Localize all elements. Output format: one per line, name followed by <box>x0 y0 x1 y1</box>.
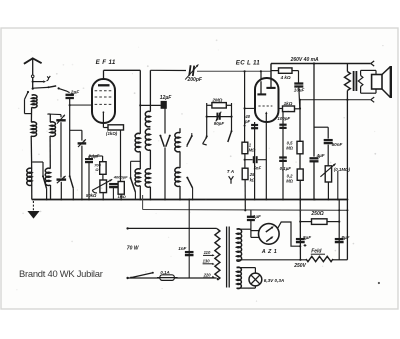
antenna coil L1 <box>32 95 37 108</box>
svg-text:8µF: 8µF <box>341 235 349 240</box>
trimmer blade S6 <box>191 135 193 137</box>
oscillator coil L5 <box>45 168 50 185</box>
pot wiper to bus <box>337 171 339 200</box>
AZ1 anode strokes <box>266 227 273 232</box>
svg-text:pF: pF <box>244 119 251 124</box>
wire L2 to bus <box>30 136 32 162</box>
capacitor 1nF mains <box>188 200 190 279</box>
svg-text:70 W: 70 W <box>127 246 140 252</box>
svg-text:(1kΩ): (1kΩ) <box>106 131 118 136</box>
resistor 25k <box>242 168 248 179</box>
svg-text:0,1µF: 0,1µF <box>280 166 292 171</box>
HT secondary winding <box>237 229 242 261</box>
svg-text:50nF: 50nF <box>332 142 343 147</box>
speaker cone <box>382 66 391 74</box>
tube EF11 envelope <box>92 79 115 123</box>
svg-text:200pF: 200pF <box>187 77 203 83</box>
svg-text:1nF: 1nF <box>178 246 186 251</box>
svg-text:1kΩ: 1kΩ <box>284 101 293 106</box>
svg-text:4000pF: 4000pF <box>113 175 128 180</box>
svg-text:6,3V 0,3A: 6,3V 0,3A <box>264 278 284 283</box>
trimmer capacitor lower <box>57 178 67 180</box>
wire to C 2uF <box>59 88 70 92</box>
anode rail to speaker <box>300 99 371 101</box>
transformer core <box>353 71 355 91</box>
wire branch to switch S2 <box>32 161 43 163</box>
trimmer capacitor column <box>47 113 49 115</box>
IF coil L7c <box>145 169 150 187</box>
wire resistor to bus <box>120 130 122 182</box>
oscillator coil L4 <box>50 122 55 136</box>
IF coil L8b <box>175 168 180 187</box>
wire 200pF line <box>150 69 186 71</box>
resistor 0,5M <box>297 141 303 154</box>
mains line bottom <box>126 277 128 279</box>
switch TA blade <box>231 130 233 132</box>
wire rectifier top connection <box>250 229 252 230</box>
capacitor 12uF electrolytic <box>140 104 161 106</box>
svg-text:1µF: 1µF <box>253 214 261 219</box>
ECL11 cathode arrow <box>265 113 267 122</box>
IF coil L7b <box>145 129 150 150</box>
switch S1b left blade <box>27 91 29 93</box>
output transformer primary <box>346 64 348 72</box>
rail end arrow <box>371 61 374 66</box>
svg-text:E F 11: E F 11 <box>96 59 116 66</box>
tube AZ1 <box>259 224 280 245</box>
coil L3 lower left <box>27 168 32 185</box>
potentiometer 50k <box>102 174 104 180</box>
svg-text:2MΩ: 2MΩ <box>211 98 222 103</box>
phono jack <box>229 176 234 184</box>
capacitor 200pF with arrow <box>189 65 190 75</box>
EF11 grid dashed lines <box>95 90 113 92</box>
wire <box>244 154 246 169</box>
svg-text:50kΩ: 50kΩ <box>86 193 97 198</box>
capacitor 50nF <box>327 127 329 138</box>
second bus <box>143 209 348 212</box>
switch blade S7 lower <box>186 177 188 179</box>
svg-text:A Z 1: A Z 1 <box>261 249 277 255</box>
resistor 1M <box>242 142 248 154</box>
scan noise specks <box>132 73 133 74</box>
svg-text:250V: 250V <box>293 263 306 269</box>
wire 4k to 10uF <box>292 70 299 72</box>
svg-text:EC L 11: EC L 11 <box>236 59 260 66</box>
ECL11 pentode anode <box>270 79 272 87</box>
trimmer 90pF <box>207 116 232 118</box>
antenna coil L2 <box>31 122 36 136</box>
capacitor 5nF coupling <box>245 159 253 161</box>
antenna switch arm <box>32 81 34 83</box>
IF coil L7a <box>145 111 150 127</box>
power transformer primary <box>215 229 220 280</box>
svg-text:MΩ: MΩ <box>286 179 293 184</box>
speaker voice coil <box>372 75 382 90</box>
capacitor 2uF <box>66 94 74 96</box>
pilot lamp wires <box>237 267 256 269</box>
capacitor 4uF <box>310 157 319 159</box>
wire antenna node <box>32 88 34 90</box>
trimmer capacitor T2 <box>70 129 82 131</box>
grid wire to ECL11 <box>197 70 271 72</box>
antenna <box>24 58 42 64</box>
ECL11 triode anode <box>260 81 262 93</box>
svg-text:90pF: 90pF <box>214 121 225 126</box>
potentiometer 0,1M <box>325 166 331 182</box>
wire grid divider column <box>244 71 246 142</box>
svg-text:Brandt 40 WK Jubilar: Brandt 40 WK Jubilar <box>19 268 103 279</box>
IF coil L6a <box>135 133 140 151</box>
svg-text:260V 40 mA: 260V 40 mA <box>290 57 319 63</box>
EF11 cathode resistor (1k) lead <box>102 123 104 128</box>
paper speck <box>378 282 380 284</box>
wire 2uF down to grid line <box>69 98 71 105</box>
wire to bus2 <box>244 180 246 211</box>
chassis bus <box>32 199 348 201</box>
grid wire to EF11 <box>70 104 92 106</box>
svg-text:12µF: 12µF <box>160 95 172 101</box>
EF11 anode bar <box>98 84 110 86</box>
AZ1 filament leads <box>251 230 259 232</box>
switch S5 double blades <box>159 135 161 137</box>
svg-text:100pF: 100pF <box>277 116 290 121</box>
bus junction dots <box>46 199 48 201</box>
IF column C <box>179 128 181 133</box>
svg-text:4µF: 4µF <box>316 153 325 158</box>
capacitor 0,1uF anode <box>279 156 287 158</box>
capacitor 10uF <box>294 82 303 84</box>
svg-text:2µF: 2µF <box>70 90 80 96</box>
capacitor 8uF second <box>338 200 340 260</box>
svg-text:MΩ: MΩ <box>286 145 293 150</box>
svg-text:4 kΩ: 4 kΩ <box>280 75 291 80</box>
switch S2 blade <box>42 175 44 177</box>
ground symbol <box>32 201 34 211</box>
ECL11 cathode to bus <box>265 122 267 200</box>
capacitor 1uF <box>247 216 255 218</box>
trimmer blade S8 <box>206 135 208 137</box>
capacitor 8uF first <box>296 238 305 240</box>
mains line top <box>126 227 128 229</box>
wire v1 down <box>299 180 301 259</box>
resistor 4k ohm <box>271 70 279 72</box>
ECL11 grid dashed <box>258 105 272 107</box>
power rail 260V <box>271 63 371 65</box>
pilot lamp <box>249 273 262 286</box>
EF11 cathode <box>103 111 105 113</box>
padder capacitor dark blob <box>56 119 65 121</box>
AZ1 cathode output <box>278 222 301 246</box>
svg-text:8µF: 8µF <box>303 235 311 240</box>
svg-text:110: 110 <box>204 250 211 255</box>
switch S1a blade <box>48 86 50 88</box>
resistor (1k ohm) <box>108 125 124 130</box>
switch S4 blade <box>130 177 132 179</box>
branch to switch S4 <box>131 160 141 162</box>
svg-text:250Ω: 250Ω <box>310 211 323 217</box>
wire rectifier column <box>244 209 246 211</box>
wire from rail down v2 <box>313 64 315 157</box>
resistor 1M below <box>118 182 124 195</box>
IF column B top <box>149 70 151 111</box>
IF coil L8a <box>175 133 180 152</box>
ECL11 top leads <box>260 71 262 78</box>
svg-text:130: 130 <box>203 259 211 264</box>
wire to ECL11 grid <box>245 107 256 109</box>
resistor 700 ohm <box>102 156 104 162</box>
mains switch <box>130 277 132 279</box>
screen column v1 <box>299 100 301 142</box>
wire EF11 anode down <box>139 70 141 134</box>
output transformer secondary <box>358 76 363 87</box>
svg-text:T A: T A <box>227 169 234 174</box>
tube ECL11 envelope <box>255 78 279 122</box>
IF coil L6b <box>135 169 140 186</box>
heater secondary winding <box>237 267 242 288</box>
svg-text:220: 220 <box>203 273 212 278</box>
EF11 top cap lead <box>103 70 105 79</box>
transformer core <box>226 227 228 288</box>
oscillator coil column <box>48 113 51 115</box>
switch S3 blade and 2uF column <box>69 105 71 176</box>
resistor 0,2M <box>297 169 303 180</box>
